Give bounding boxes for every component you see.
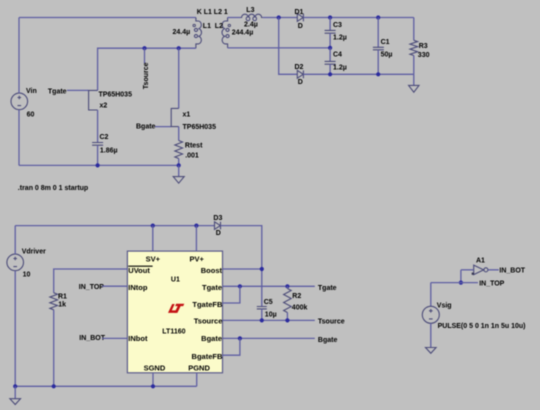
op-amp U1 body	[127, 251, 222, 373]
svg-text:IN_BOT: IN_BOT	[79, 335, 105, 342]
node Tgate/TgateFB	[238, 284, 242, 288]
wire output bottom rail	[303, 73, 413, 75]
svg-text:TP65H035: TP65H035	[183, 124, 217, 131]
node Vdriver ground corner	[13, 384, 17, 388]
node C4 bottom	[328, 72, 332, 76]
diode D1	[297, 14, 303, 22]
diode D3	[215, 222, 221, 230]
svg-text:SGND: SGND	[144, 364, 166, 373]
wire SGND drop	[152, 373, 154, 387]
svg-text:10µ: 10µ	[265, 312, 277, 319]
resistor R3	[410, 18, 418, 75]
wire bottom rail top circuit	[19, 164, 179, 166]
resistor R1	[50, 293, 58, 310]
svg-text:IN_TOP: IN_TOP	[479, 281, 504, 288]
svg-text:C5: C5	[264, 299, 273, 306]
inductor L1	[194, 18, 201, 49]
diode D2	[297, 70, 303, 78]
capacitor C3	[325, 18, 336, 48]
svg-text:LT1160: LT1160	[162, 329, 185, 336]
svg-text:Vin: Vin	[26, 88, 37, 95]
svg-text:SV+: SV+	[146, 254, 161, 263]
node SGND bottom	[151, 384, 155, 388]
capacitor C1	[373, 18, 384, 75]
ground driver	[10, 386, 21, 404]
wire BgateFB jog	[222, 338, 240, 355]
svg-text:L2: L2	[215, 23, 223, 30]
svg-text:D1: D1	[295, 9, 304, 16]
svg-text:UVout: UVout	[128, 266, 150, 275]
ground top circuit	[173, 165, 184, 183]
svg-text:R1: R1	[58, 293, 67, 300]
wire Vdriver bottom	[14, 271, 16, 387]
svg-text:244.4µ: 244.4µ	[232, 29, 254, 36]
node Rtest bottom	[177, 163, 181, 167]
wire A1 input drop	[460, 270, 462, 283]
voltage source Vdriver	[7, 254, 24, 271]
svg-text:IN_TOP: IN_TOP	[79, 284, 104, 291]
svg-text:D: D	[216, 230, 221, 237]
buffer A1	[472, 265, 488, 275]
svg-text:Tsource: Tsource	[318, 318, 345, 325]
svg-text:.001: .001	[185, 152, 199, 159]
node x1 drain	[177, 46, 181, 50]
wire x1 source to Rtest	[178, 127, 180, 141]
wire IN_TOP row	[431, 282, 478, 284]
phase dot L2	[228, 24, 230, 26]
wire x1 drain	[178, 48, 180, 108]
transistor x2	[89, 90, 98, 110]
svg-text:Bgate: Bgate	[136, 124, 156, 131]
svg-text:D: D	[298, 79, 303, 86]
svg-text:Boost: Boost	[201, 266, 223, 275]
wire L2 bottom to C3/C4 mid	[228, 47, 331, 49]
wire Boost row	[222, 268, 261, 270]
node C2 bottom	[96, 163, 100, 167]
transistor x1	[171, 108, 179, 126]
wire Vin top	[18, 18, 20, 94]
wire Vin bottom	[18, 110, 20, 166]
node C5 bottom	[260, 318, 264, 322]
wire UVout to R1	[54, 269, 128, 293]
ground output	[409, 74, 419, 92]
wire down to D2	[279, 18, 298, 75]
node C1 top	[376, 15, 380, 19]
svg-text:L1: L1	[203, 23, 211, 30]
capacitor C5	[257, 307, 267, 321]
wire SV+ drop	[152, 226, 154, 252]
pin UVout	[128, 266, 152, 275]
wire Bgate to x1 gate	[155, 126, 171, 128]
svg-text:C4: C4	[333, 52, 342, 59]
svg-text:Tgate: Tgate	[202, 283, 222, 292]
wire PV+ drop	[195, 226, 197, 252]
svg-text:IN_BOT: IN_BOT	[499, 267, 525, 274]
node IN_TOP junction	[459, 281, 463, 285]
svg-text:Vsig: Vsig	[437, 302, 452, 309]
node R1 bottom	[52, 384, 56, 388]
wire x2 source to C2	[97, 110, 99, 143]
wire Bgate row	[222, 337, 314, 339]
svg-text:Bgate: Bgate	[318, 337, 338, 344]
wire R1 bottom	[53, 310, 55, 387]
node C3/C4 midpoint	[328, 46, 332, 50]
svg-text:x1: x1	[183, 111, 191, 118]
svg-text:1.2µ: 1.2µ	[333, 34, 347, 41]
svg-text:1k: 1k	[58, 301, 66, 308]
svg-text:D2: D2	[295, 64, 304, 71]
svg-text:Vdriver: Vdriver	[22, 248, 46, 255]
wire L3 to D1	[263, 17, 298, 19]
svg-text:C1: C1	[381, 39, 390, 46]
svg-text:TP65H035: TP65H035	[99, 91, 133, 98]
node SV+	[151, 224, 155, 228]
resistor R2	[284, 286, 292, 320]
logo LT	[168, 304, 184, 313]
phase dot L1	[193, 24, 195, 26]
node C1 bottom	[376, 72, 380, 76]
wire A1 input	[461, 269, 474, 271]
svg-text:PV+: PV+	[190, 254, 205, 263]
wire Tgate to x2 gate	[67, 89, 89, 91]
svg-text:1.86µ: 1.86µ	[100, 148, 118, 155]
svg-text:Tgate: Tgate	[318, 285, 337, 292]
svg-text:U1: U1	[171, 277, 180, 284]
node C3 top	[328, 15, 332, 19]
resistor Rtest	[175, 141, 183, 159]
svg-text:L3: L3	[246, 7, 254, 14]
wire supply rail to D3	[15, 225, 214, 227]
inductor L2	[222, 18, 229, 48]
svg-text:PULSE(0 5 0 1n 1n 5u 10u): PULSE(0 5 0 1n 1n 5u 10u)	[438, 323, 526, 330]
svg-text:TgateFB: TgateFB	[192, 300, 223, 309]
svg-text:D3: D3	[213, 215, 222, 222]
svg-text:C3: C3	[333, 22, 342, 29]
capacitor C4	[325, 48, 336, 74]
inductor L3	[241, 14, 263, 21]
wire PGND drop	[196, 373, 198, 387]
voltage source Vin	[11, 93, 28, 110]
voltage source Vsig	[422, 306, 439, 323]
svg-text:Tgate: Tgate	[48, 89, 67, 96]
ground Vsig	[426, 323, 437, 353]
svg-text:PGND: PGND	[188, 364, 210, 373]
wire D3 to boost corner	[221, 226, 262, 307]
svg-text:Tsource: Tsource	[194, 317, 223, 326]
wire INtop stub	[102, 285, 127, 287]
node PV+	[194, 224, 198, 228]
wire L1 bottom to switch node	[98, 48, 196, 90]
wire Tsource row	[222, 319, 314, 321]
svg-text:K L1 L2 1: K L1 L2 1	[197, 9, 228, 16]
svg-text:INbot: INbot	[128, 334, 148, 343]
wire top rail to L1	[19, 17, 196, 19]
svg-text:400k: 400k	[292, 304, 308, 311]
svg-text:50µ: 50µ	[381, 51, 393, 58]
node R2 bottom	[285, 318, 289, 322]
svg-text:INtop: INtop	[128, 283, 148, 292]
wire Vdriver top	[14, 226, 16, 255]
node R2 top	[285, 284, 289, 288]
svg-text:A1: A1	[476, 258, 485, 265]
wire L2 top to L3	[228, 17, 241, 19]
node Tsource tap	[142, 46, 146, 50]
wire Vsig top	[430, 283, 432, 307]
svg-text:.tran 0 8m 0 1 startup: .tran 0 8m 0 1 startup	[18, 185, 88, 192]
wire driver bottom rail	[15, 385, 197, 387]
node Boost	[260, 267, 264, 271]
svg-text:R2: R2	[292, 293, 301, 300]
svg-text:60: 60	[27, 111, 35, 118]
svg-text:Bgate: Bgate	[201, 334, 222, 343]
capacitor C2	[92, 143, 103, 166]
svg-text:Rtest: Rtest	[185, 143, 203, 150]
svg-text:D: D	[298, 23, 303, 30]
svg-text:2.4µ: 2.4µ	[244, 21, 258, 28]
wire Rtest to rail	[178, 159, 180, 166]
wire A1 output	[488, 269, 499, 271]
svg-text:24.4µ: 24.4µ	[173, 29, 191, 36]
svg-text:Tsource: Tsource	[143, 62, 150, 89]
node Bgate/BgateFB	[238, 336, 242, 340]
node split to D2	[277, 15, 281, 19]
wire D1 to R3 corner	[303, 17, 413, 19]
svg-text:1.2µ: 1.2µ	[333, 64, 347, 71]
svg-text:R3: R3	[419, 43, 428, 50]
wire Tgate row	[222, 285, 314, 287]
wire TgateFB jog	[222, 286, 240, 303]
wire Tsource stub	[144, 48, 146, 63]
svg-text:10: 10	[23, 271, 31, 278]
svg-text:C2: C2	[100, 134, 109, 141]
wire INbot stub	[102, 337, 127, 339]
svg-text:BgateFB: BgateFB	[192, 352, 223, 361]
svg-text:x2: x2	[100, 102, 108, 109]
svg-text:330: 330	[418, 52, 430, 59]
